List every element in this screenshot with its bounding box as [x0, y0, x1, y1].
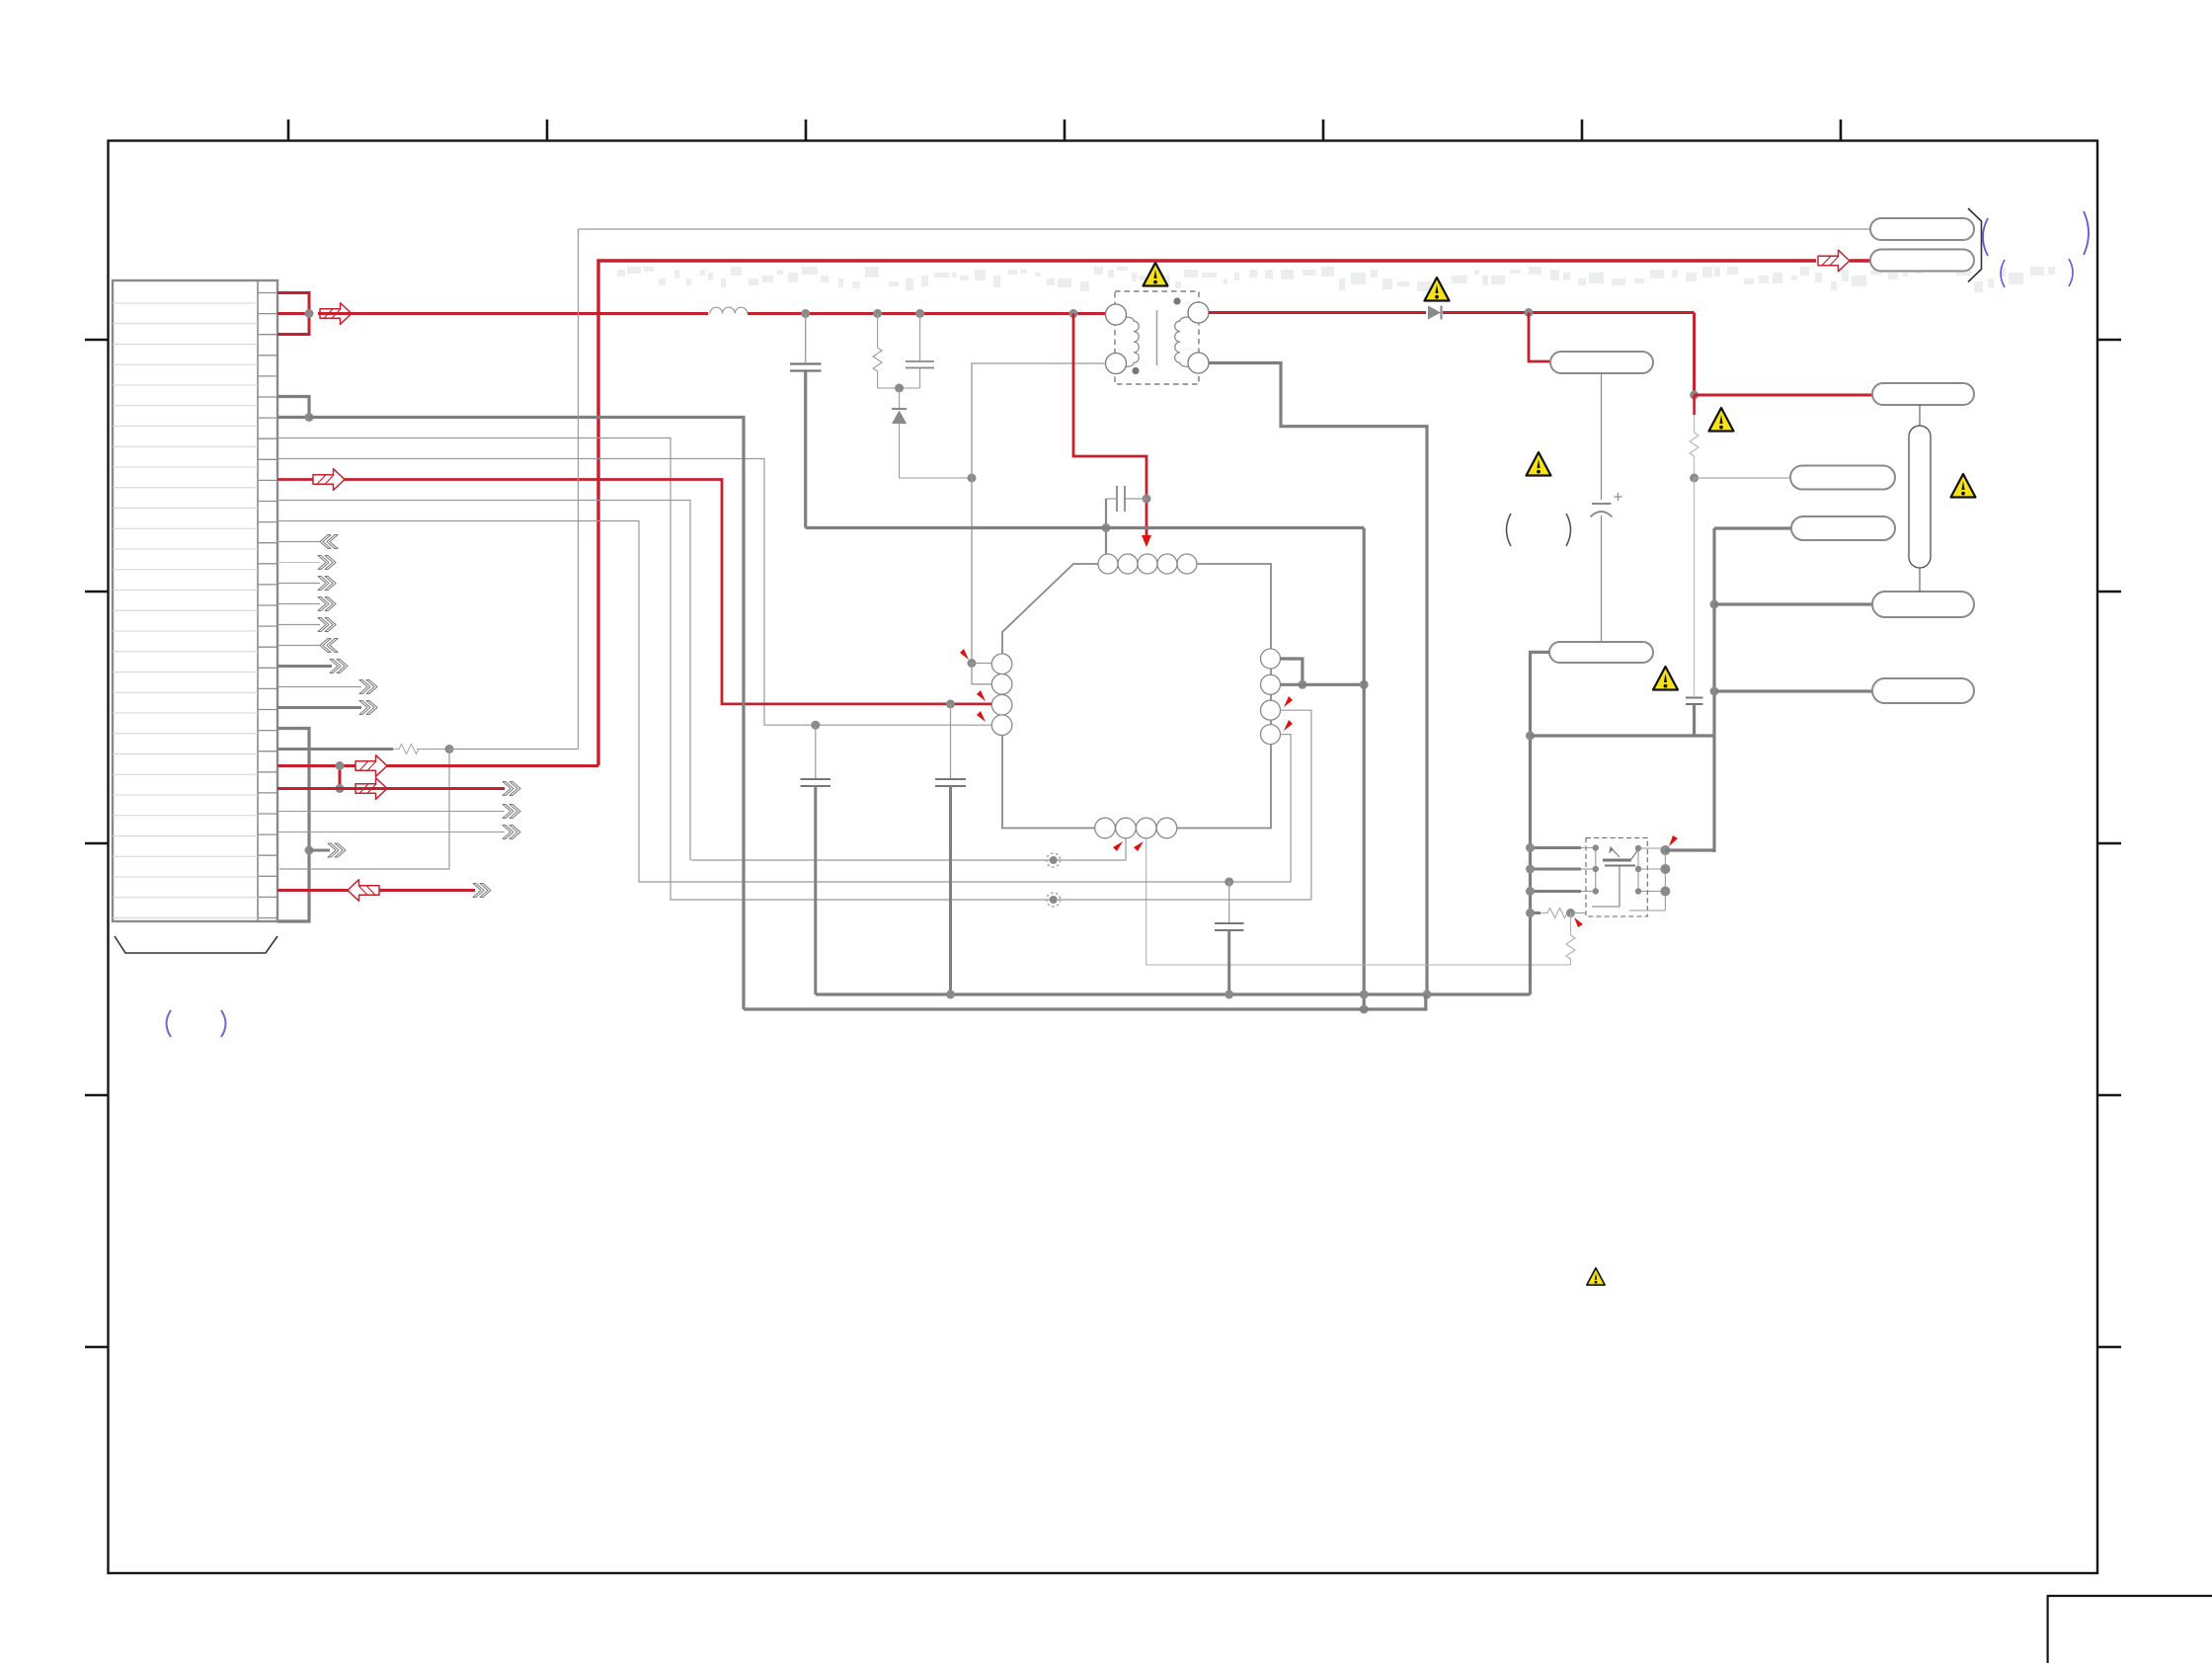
wire red bracket pins 1-3 [277, 293, 309, 335]
junction node at T1 primary [1069, 309, 1078, 318]
net chevron row861 [328, 843, 346, 857]
regulator stadium REG2 [1549, 642, 1653, 663]
drive stubs from rail to Q1 [1531, 848, 1582, 913]
warning symbol right of F1 [1951, 474, 1976, 498]
junction R1-R2 [1298, 680, 1306, 689]
wire F1 to out1 [1919, 568, 1921, 592]
transformer T1 phase dot secondary [1173, 297, 1180, 304]
rectifier diode D1 [1428, 306, 1442, 320]
net stadium vcc [1791, 516, 1895, 540]
thick wire to stadium vcc [1714, 526, 1791, 529]
wire row632 chevron [277, 624, 320, 626]
IC U1 bottom pin 1 [1095, 818, 1116, 838]
border tick top 2 [546, 119, 549, 140]
wire row695 chevron [277, 686, 361, 688]
wire red down right side [1693, 313, 1696, 396]
wire row590 chevron [277, 583, 320, 585]
warning symbol above T1 [1144, 263, 1168, 286]
wire row737 thick bracket long [277, 729, 309, 922]
transformer T1 pin 1 [1106, 304, 1127, 325]
IC right pin1 link [1281, 659, 1303, 684]
thick wire to stadium out2 [1714, 689, 1872, 692]
net chevron row798 [503, 782, 520, 796]
junction base node [1566, 909, 1575, 917]
IC U1 bottom pin 4 [1156, 818, 1177, 838]
reference parens mid [1507, 514, 1571, 546]
pin marker base [1574, 917, 1583, 927]
wire base into Q1 [1571, 912, 1587, 914]
pin marker IC R4 [1284, 720, 1293, 731]
Q1 internal right dots [1635, 845, 1641, 895]
ground bus 1 [816, 992, 1531, 995]
fuse F1 vertical stadium [1909, 426, 1931, 568]
blue parens pair 2 [2001, 259, 2073, 287]
IC bottom pin2 wire [691, 838, 1126, 860]
junction at C3 [1143, 495, 1151, 504]
wire row401 thick bracket [277, 397, 309, 418]
IC U1 right pin 3 [1261, 700, 1281, 720]
wire row901 red return [277, 889, 475, 892]
thick wire Q1 collector to rail [1665, 848, 1714, 851]
junction node at D2 return [968, 474, 977, 483]
wire row716 thick chevron [277, 706, 361, 709]
red stub to R4 [1693, 395, 1696, 415]
wire row653 chevron [277, 645, 320, 647]
wire row821 chevron [277, 811, 505, 813]
net stadium sense [1790, 466, 1895, 490]
page border frame [109, 141, 2098, 1574]
IC U1 top pin 1 [1098, 554, 1118, 574]
thick bus to IC area [806, 526, 1364, 529]
pin marker IC L4 [977, 711, 986, 722]
regulator stadium REG1 [1550, 352, 1653, 373]
junction row422 [305, 413, 314, 422]
wire red branch to REG1 [1529, 313, 1550, 362]
wire C5 to REG2 [1601, 515, 1603, 642]
junction rail 745 [1526, 732, 1535, 741]
net chevron row632 [318, 618, 336, 632]
electrolytic capacitor C5 [1591, 493, 1622, 517]
junction node VIN at C1 [801, 309, 810, 318]
transformer T1 phase dot primary [1132, 367, 1139, 374]
border tick right 2 [2097, 591, 2121, 594]
capacitor C3 [1106, 486, 1146, 554]
wire row842 chevron [277, 831, 505, 833]
capacitor C1 [790, 314, 822, 528]
capacitor C4b [935, 704, 966, 994]
title block corner box [2048, 1596, 2212, 1663]
wire row485 red to pin L3 [277, 480, 991, 704]
IC bottom pin3 wire [1146, 838, 1571, 965]
wire row775 red to top rail [277, 764, 598, 767]
net stadium out1 [1872, 592, 1974, 617]
thick wire to stadium out1 [1714, 602, 1872, 605]
net stadium DC out right [1872, 383, 1974, 405]
IC U1 right pin 2 [1261, 674, 1281, 694]
junction rail 612 [1710, 600, 1719, 609]
Q1 internal left pins [1581, 848, 1596, 892]
junction bus2 end [1360, 1005, 1369, 1014]
junction bus1 c4b [946, 990, 955, 999]
Q1 internal right pins [1629, 848, 1665, 911]
warning symbol right of R4 [1709, 408, 1734, 432]
transformer T1 primary winding [1125, 317, 1139, 366]
wire row441 to pin R3 [277, 438, 1311, 901]
border tick top 6 [1581, 119, 1584, 140]
transformer T1 secondary winding [1175, 317, 1189, 366]
transformer T1 pin 3 [1188, 353, 1209, 373]
pin marker IC B3 [1134, 841, 1144, 851]
junction at red bracket [305, 309, 314, 318]
junction node D2 top [895, 384, 904, 393]
net chevron row611 [318, 597, 336, 611]
wire node to standby riser [449, 229, 579, 750]
net chevron row821 [503, 805, 520, 819]
net chevron row569 [318, 556, 336, 570]
IC U1 top pin 5 [1177, 554, 1197, 574]
junction node sense [1690, 474, 1698, 483]
IC right pin2 wire [1281, 683, 1365, 686]
ground bus 2 [744, 994, 1426, 1009]
net arrow power top [1818, 250, 1850, 272]
IC U1 bottom pin 2 [1116, 818, 1137, 838]
wire row674 thick chevron [277, 665, 332, 668]
wire red to stadium DC out [1695, 394, 1872, 397]
IC right pin4 wire [1281, 735, 1292, 882]
IC U1 left pin 4 [991, 715, 1012, 736]
net stadium out2 [1872, 678, 1974, 703]
wire row611 chevron [277, 603, 320, 605]
border tick left 5 [85, 1346, 108, 1349]
wire red after D1 [1443, 311, 1695, 314]
net arrow row485 [313, 469, 345, 491]
thick vertical bus mid [1363, 528, 1366, 1010]
border tick right 4 [2097, 1094, 2121, 1097]
IC U1 bottom pin 3 [1136, 818, 1156, 838]
filter inductor L1 [710, 307, 748, 313]
transistor Q1 dashed box [1586, 838, 1647, 917]
capacitor C2 [906, 314, 934, 389]
net chevron row901 [473, 884, 491, 898]
junction red a [336, 761, 345, 770]
wire T1 pin3 thick output [1209, 363, 1427, 995]
junction red b [336, 784, 345, 793]
thin line top to stadium standby [579, 228, 1871, 230]
net chevron row590 [318, 577, 336, 591]
transformer T1 core [1156, 310, 1158, 365]
wire sense down to C6 [1694, 478, 1696, 696]
red top power line [598, 261, 1816, 766]
wire row506 to IC bottom2 [277, 501, 690, 861]
thick line REG2 to vertical rail [1531, 652, 1550, 994]
junction node at C2 [915, 309, 924, 318]
capacitor C4c [1215, 882, 1244, 994]
resistor R2 [873, 314, 882, 389]
warning symbol small bottom [1587, 1268, 1605, 1285]
warning symbol below REG2 [1653, 667, 1678, 690]
IC U1 left pin 1 [991, 654, 1012, 674]
IC U1 left pin 3 [991, 695, 1012, 716]
net chevron row653 [320, 639, 338, 653]
net chevron row695 [359, 680, 377, 694]
transformer T1 pin 2 [1106, 354, 1127, 374]
IC U1 right pin 4 [1261, 725, 1281, 745]
border tick top 4 [1064, 119, 1066, 140]
wire red main to transformer [318, 312, 1106, 315]
red lead into stadium [1850, 259, 1870, 262]
output rail vertical [1712, 528, 1715, 852]
IC right pin3 wire [1281, 710, 1311, 900]
net stadium power top [1870, 250, 1974, 272]
transformer T1 dashed box [1115, 291, 1199, 384]
resistor R5 base [1540, 909, 1571, 918]
border tick top 1 [287, 119, 290, 140]
reference parens under connector [167, 1010, 226, 1037]
wire R2-C2 common node [878, 387, 920, 389]
junctions on drive rail [1526, 843, 1535, 917]
junction node row758 [445, 745, 454, 753]
connection marker net a [1047, 853, 1061, 867]
junction row861 [305, 846, 314, 855]
connector CN1 body [113, 280, 277, 921]
junction on vertical bus [1360, 680, 1369, 689]
connection marker net b [1047, 893, 1061, 907]
warning symbol near IC right [1527, 452, 1551, 476]
wire row861 chevron [309, 849, 330, 852]
capacitor C6 [1686, 698, 1703, 737]
net stadium standby top [1870, 218, 1974, 240]
junction at C4a [811, 721, 820, 730]
red bridge rows 775-798 [339, 766, 342, 789]
wire to IC pin L1 and L2 [972, 664, 991, 684]
connector CN1 pin row lines [113, 303, 258, 918]
IC U1 hybrid block outline [1002, 564, 1271, 829]
wire stadium3 to F1 [1919, 405, 1921, 426]
IC U1 top pin 2 [1118, 554, 1138, 574]
net chevron row548 [320, 535, 338, 549]
net arrow row775 [355, 755, 387, 777]
pin marker IC top3 [1142, 535, 1151, 547]
junction at C4b [946, 699, 955, 708]
junction red at REG1 branch [1525, 308, 1534, 317]
pin marker Q1 out [1669, 835, 1678, 846]
wire row798 red to chevron [277, 787, 505, 790]
wire row569 chevron [277, 562, 320, 564]
junction bus1 mid [1360, 990, 1369, 999]
IC U1 top pin 3 [1138, 554, 1157, 574]
wire node down to row880 [279, 750, 449, 870]
border tick top 3 [805, 119, 808, 140]
border tick right 1 [2097, 339, 2121, 342]
capacitor C4a [801, 725, 831, 994]
faint print artifacts band [617, 267, 2055, 292]
wire T1 pin2 return [972, 363, 1106, 664]
border tick right 3 [2097, 842, 2121, 845]
net chevron row716 [359, 701, 377, 715]
Q1 output dots [1660, 845, 1670, 897]
junction rail 700 [1710, 687, 1719, 696]
wire row422 thick to bus2 [309, 418, 744, 1010]
connector end bracket [1968, 208, 1982, 282]
wire row464 to pin L4 [277, 459, 991, 726]
pin marker IC L1 [960, 649, 969, 660]
red riser from junction to IC [1073, 314, 1146, 536]
pin marker IC R3 [1284, 696, 1293, 707]
wire R1 to node [417, 749, 449, 751]
net arrow row901 left [348, 880, 379, 902]
border tick left 3 [85, 842, 108, 845]
resistor R1 [393, 745, 421, 754]
transformer T1 pin 4 [1188, 302, 1209, 323]
wire row758 with R1 [277, 748, 393, 751]
border tick left 4 [85, 1094, 108, 1097]
border tick top 7 [1840, 119, 1843, 140]
net chevron row842 [503, 826, 520, 839]
junction at C4c [1224, 878, 1233, 887]
wire T1 pin4 red secondary [1209, 311, 1426, 314]
IC U1 top pin 4 [1157, 554, 1177, 574]
junction at IC pin L1 [968, 659, 977, 668]
net chevron row674 [330, 660, 348, 673]
IC U1 left pin 2 [991, 674, 1012, 695]
wire REG1 to C5 [1601, 373, 1603, 500]
pin marker IC B2 [1113, 841, 1123, 851]
junction C3 lead on bus [1102, 523, 1111, 532]
wire row548 chevron [277, 541, 320, 543]
connector CN1 bottom bracket [115, 936, 277, 953]
Q1 internal pin dots [1593, 844, 1599, 894]
junction node at R2 [873, 309, 882, 318]
wire to stadium sense [1695, 477, 1790, 479]
IC U1 right pin 1 [1261, 649, 1281, 669]
wire row527 to pin R4 [277, 521, 1291, 883]
net arrow REG in [320, 303, 352, 325]
net arrow row798 [355, 778, 387, 800]
border tick left 2 [85, 591, 108, 594]
resistor R4 [1690, 415, 1698, 478]
zener diode D2 [892, 388, 972, 478]
border tick top 5 [1322, 119, 1325, 140]
junction bus1 c4c [1224, 990, 1233, 999]
border tick right 5 [2097, 1346, 2121, 1349]
transistor Q1 symbol [1592, 847, 1638, 907]
warning symbol above D1 [1425, 277, 1450, 301]
junction red node [1690, 391, 1698, 400]
thick link to output rail [1531, 734, 1715, 737]
pin marker IC L3 [977, 690, 986, 701]
resistor R6 pulldown [1566, 913, 1575, 966]
blue parens pair 1 [1983, 211, 2089, 256]
border tick left 1 [85, 339, 108, 342]
junction bus1 right [1423, 990, 1432, 999]
